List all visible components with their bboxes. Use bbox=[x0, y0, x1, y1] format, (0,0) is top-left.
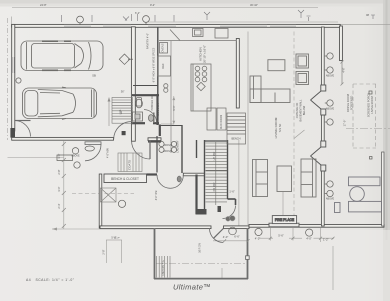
svg-text:DINING ROOM: DINING ROOM bbox=[346, 94, 350, 112]
svg-text:DN 16R: DN 16R bbox=[213, 182, 216, 191]
svg-text:ABOVE: ABOVE bbox=[326, 108, 335, 111]
svg-text:17'-0": 17'-0" bbox=[343, 120, 347, 127]
svg-text:4'-0": 4'-0" bbox=[306, 237, 312, 241]
svg-text:UP 16R: UP 16R bbox=[213, 151, 216, 160]
svg-text:5'-6": 5'-6" bbox=[278, 234, 284, 238]
svg-text:BENCH & CLOSET: BENCH & CLOSET bbox=[111, 177, 139, 181]
svg-text:LIVING ROOM: LIVING ROOM bbox=[370, 96, 374, 113]
svg-text:FIRE PLACE: FIRE PLACE bbox=[275, 218, 295, 222]
svg-text:SB: SB bbox=[92, 74, 96, 78]
svg-text:REF: REF bbox=[161, 63, 165, 69]
svg-text:4'-0" ABV: 4'-0" ABV bbox=[107, 148, 110, 158]
svg-text:721 SF: 721 SF bbox=[278, 123, 282, 132]
svg-text:Ultimate™: Ultimate™ bbox=[173, 283, 211, 292]
svg-text:20'-10" x 16'-0": 20'-10" x 16'-0" bbox=[203, 45, 207, 63]
svg-text:16R DN 7¾: 16R DN 7¾ bbox=[161, 260, 165, 276]
svg-text:4'-2": 4'-2" bbox=[255, 237, 261, 241]
svg-text:ABOVE: ABOVE bbox=[71, 155, 80, 158]
svg-text:BASEMENT WALL: BASEMENT WALL bbox=[299, 99, 303, 121]
svg-text:LIVING ROOM: LIVING ROOM bbox=[274, 117, 278, 138]
svg-text:ABOVE: ABOVE bbox=[326, 198, 335, 201]
svg-text:COATS: COATS bbox=[128, 160, 132, 170]
svg-text:4'-6": 4'-6" bbox=[342, 67, 346, 72]
svg-text:4'-0": 4'-0" bbox=[223, 235, 229, 239]
svg-text:UP: UP bbox=[119, 109, 123, 114]
svg-text:36": 36" bbox=[121, 90, 125, 94]
svg-text:3'-0": 3'-0" bbox=[57, 186, 61, 191]
svg-text:2'-8": 2'-8" bbox=[102, 249, 106, 254]
svg-text:LAUNDRY: LAUNDRY bbox=[176, 140, 180, 153]
svg-text:SCREENED PORCH: SCREENED PORCH bbox=[367, 93, 371, 118]
svg-text:3'-6": 3'-6" bbox=[57, 153, 61, 158]
svg-text:24'-8": 24'-8" bbox=[40, 3, 47, 7]
svg-text:30'-10": 30'-10" bbox=[250, 3, 258, 7]
svg-text:BENCH: BENCH bbox=[231, 137, 240, 141]
svg-text:6'-6": 6'-6" bbox=[234, 235, 240, 239]
svg-text:2'-4": 2'-4" bbox=[57, 203, 61, 208]
svg-text:5'-7": 5'-7" bbox=[111, 236, 116, 240]
svg-text:BELOW: BELOW bbox=[302, 105, 306, 115]
svg-text:1'-6": 1'-6" bbox=[229, 190, 235, 194]
svg-text:A4 SCALE: 1/4" = 1'-0": A4 SCALE: 1/4" = 1'-0" bbox=[26, 278, 75, 282]
svg-text:9'-2": 9'-2" bbox=[150, 3, 155, 7]
svg-text:OVENS: OVENS bbox=[161, 43, 165, 52]
svg-text:6'-0" HIGH x 6'-8" WIDE SPECS: 6'-0" HIGH x 6'-8" WIDE SPECS bbox=[153, 47, 156, 82]
svg-text:4'-0" RM: 4'-0" RM bbox=[155, 191, 158, 201]
svg-text:SCREENED: SCREENED bbox=[350, 96, 354, 111]
svg-text:W/D STACK: W/D STACK bbox=[157, 103, 160, 117]
svg-text:PANTRY 4'-0": PANTRY 4'-0" bbox=[146, 33, 150, 49]
svg-text:KITCHEN: KITCHEN bbox=[199, 47, 203, 61]
svg-text:1'-2": 1'-2" bbox=[323, 238, 329, 242]
svg-text:ABOVE: ABOVE bbox=[326, 75, 335, 78]
svg-text:ABOVE: ABOVE bbox=[164, 144, 173, 147]
svg-text:16 R DN: 16 R DN bbox=[199, 243, 202, 253]
svg-text:OUTLINE OF: OUTLINE OF bbox=[295, 102, 299, 118]
svg-text:9'-1": 9'-1" bbox=[172, 105, 176, 110]
svg-text:MUD ROOM: MUD ROOM bbox=[220, 115, 223, 129]
svg-text:POWDER RM: POWDER RM bbox=[151, 95, 154, 110]
svg-text:2'-8": 2'-8" bbox=[57, 169, 61, 174]
svg-text:ABOVE: ABOVE bbox=[164, 150, 173, 153]
